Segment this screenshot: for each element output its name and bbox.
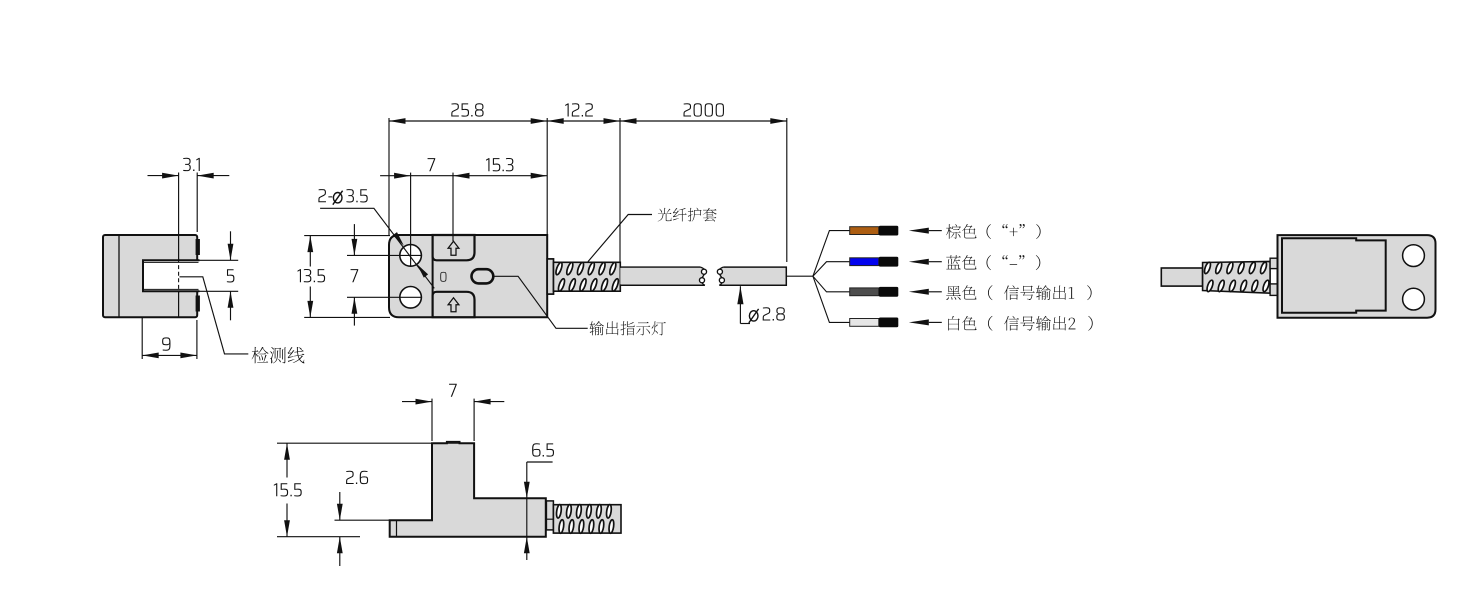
tab bottom with arrow (433, 292, 475, 317)
dimension diam 2.8 (737, 286, 743, 304)
fork slot (143, 260, 200, 291)
fiber cable segment 2 (720, 268, 787, 285)
dimension 15.3 (453, 175, 547, 177)
cable break left (719, 267, 724, 273)
arrow to wire blue -V (909, 259, 929, 265)
arrow to wire white signal2 (909, 319, 929, 325)
fiber sheath corrugated (554, 262, 621, 291)
label wire brown +V (946, 224, 961, 239)
fiber ferrule (547, 259, 553, 294)
dimension 7 left (347, 254, 421, 256)
up-arrow glyph bottom (448, 298, 459, 312)
side view body (390, 442, 546, 537)
optical face top arm (196, 239, 200, 255)
rear hole bottom (1403, 288, 1425, 310)
side sheath corrugated (553, 505, 621, 533)
label shuchuzhishideng (589, 321, 603, 335)
rear view cable (1161, 268, 1202, 286)
dimension 5 (200, 259, 239, 261)
rear view sheath corrugated (1203, 261, 1271, 293)
side ferrule (546, 501, 553, 530)
detection axis line (178, 235, 180, 260)
label output LED leader (493, 276, 587, 328)
rear inner housing (1282, 238, 1386, 313)
output LED oval (472, 269, 494, 283)
wire brown +V (850, 226, 899, 236)
label wire white signal2 (948, 316, 960, 330)
dimension 2000 (786, 118, 788, 262)
wire black signal1 (850, 287, 899, 297)
dimension 2.6 (335, 519, 390, 521)
dimension 6.5 (527, 461, 553, 463)
arrow to wire black signal1 (909, 289, 929, 295)
dimension 7 top (410, 173, 412, 266)
rear hole top (1403, 245, 1425, 267)
marking 0 (440, 272, 446, 282)
optical face bottom arm (196, 296, 200, 312)
label fiber sheath leader (588, 215, 652, 262)
label wire black signal1 (946, 286, 961, 300)
mounting hole bottom (400, 287, 422, 309)
wire blue -V (850, 257, 899, 267)
top view sensor body (389, 235, 547, 317)
arrow to wire brown +V (909, 228, 929, 234)
dimension 25.8 (388, 118, 390, 235)
dimension 9 (141, 317, 143, 359)
label jianceline (252, 347, 269, 363)
dimension 3.1 (178, 173, 180, 236)
wire white signal2 (850, 318, 899, 328)
wire fan-out (813, 231, 850, 323)
front view fork sensor body (103, 235, 197, 317)
cable break right (700, 267, 705, 273)
rear view body (1278, 235, 1436, 318)
fork boundary line (432, 235, 434, 317)
label 2-diam3.5 with leader (333, 193, 342, 203)
label wire blue -V (946, 255, 961, 269)
dimension 15.5 (277, 442, 473, 444)
rear ferrule bottom (1270, 284, 1277, 296)
dimension 13.5 (304, 235, 390, 237)
label guangxianhutao (658, 208, 672, 222)
tab top with arrow (433, 235, 475, 260)
leader detection line label (180, 277, 249, 354)
dimension 12.2 (619, 118, 621, 262)
mounting hole top (400, 245, 422, 267)
dimension 7 bottom (431, 399, 433, 441)
cable stub to fan (786, 275, 813, 277)
rear ferrule top (1270, 258, 1277, 268)
fiber cable segment 1 (620, 267, 705, 285)
up-arrow glyph top (448, 241, 459, 255)
